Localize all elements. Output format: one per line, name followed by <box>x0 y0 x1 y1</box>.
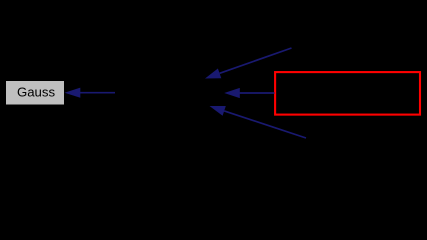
node truncated caller (red box) <box>275 72 420 115</box>
wire edge bottom caller -> central <box>210 106 307 138</box>
node central caller (invisible black box) <box>115 78 224 107</box>
svg-text:Gauss: Gauss <box>17 85 56 100</box>
wire edge central -> Gauss <box>65 88 116 98</box>
wire edge top caller -> central <box>205 48 292 79</box>
node Gauss (root, grey filled) <box>6 81 65 106</box>
wire edge red box -> central <box>224 88 274 98</box>
